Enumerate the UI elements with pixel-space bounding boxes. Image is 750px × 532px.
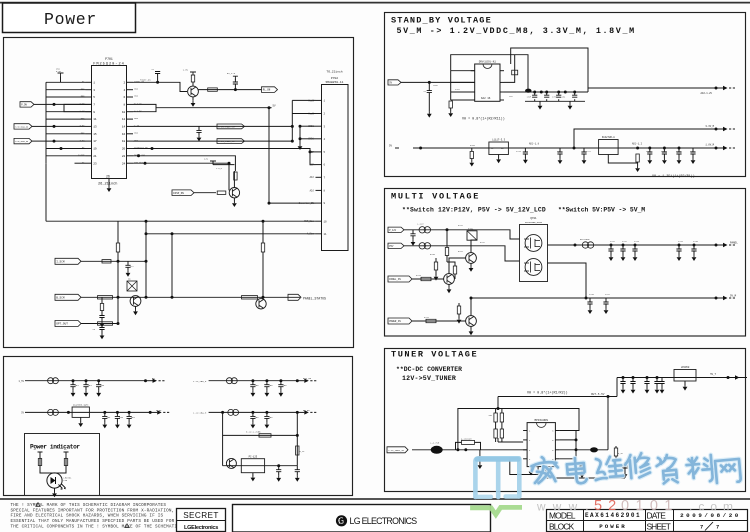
node junction GND1b [299, 137, 302, 140]
capacitor C-1v8 [692, 148, 694, 152]
capacitor C-out [546, 92, 548, 95]
svg-text:PC-123: PC-123 [249, 455, 258, 458]
svg-text:FM25Q20-24: FM25Q20-24 [93, 63, 125, 67]
ground LED [54, 488, 56, 491]
capacitor C-fb [512, 70, 518, 75]
svg-text:5: 5 [93, 96, 95, 99]
svg-text:3.3V: 3.3V [156, 409, 162, 412]
svg-text:7: 7 [700, 525, 703, 531]
ground Q702 emitter [233, 198, 235, 201]
svg-text:KIA278R-A: KIA278R-A [602, 136, 615, 139]
svg-text:104: 104 [269, 416, 274, 419]
op-amp U705 reg 78M05 [674, 370, 696, 382]
capacitor C-bl3 [128, 412, 130, 416]
svg-text:14: 14 [122, 126, 126, 129]
port I_SCM [55, 258, 81, 264]
node junction bl3b [128, 411, 131, 414]
svg-text:21: 21 [93, 155, 97, 158]
svg-text:R705: R705 [470, 144, 476, 147]
port RL_ON [262, 87, 278, 93]
svg-text:RL_ON: RL_ON [263, 89, 271, 92]
svg-text:20: 20 [122, 148, 126, 151]
Power Indicator box [25, 434, 100, 496]
opto U-pc123 [241, 459, 264, 473]
IC P701 pin 15 stub [86, 133, 93, 135]
svg-text:ADJ-1.8: ADJ-1.8 [529, 142, 540, 145]
capacitor C-t3 [581, 461, 583, 463]
capacitor C-low1 [524, 148, 526, 152]
svg-text:I_SCM: I_SCM [56, 260, 65, 263]
svg-text:R_1K: R_1K [618, 452, 624, 455]
wire bus to pin [46, 133, 86, 135]
svg-text:5V_T: 5V_T [710, 373, 716, 376]
LED LED701 [47, 473, 62, 488]
svg-text:R737: R737 [458, 250, 464, 253]
capacitor C-bl1 [72, 381, 74, 385]
svg-text:POWER_IN: POWER_IN [389, 320, 401, 323]
resistor R-led1 [38, 459, 41, 466]
wire bl row1 left [25, 380, 146, 382]
wire 5V feed row [156, 107, 269, 109]
resistor R-u701 [450, 99, 452, 101]
capacitor chain bscm [101, 297, 103, 303]
svg-text:R_1K: R_1K [300, 450, 306, 453]
watermark hanzi zi 资 [656, 454, 678, 484]
op-amp U701 LDO [475, 64, 500, 101]
svg-text:Q701: Q701 [530, 217, 537, 220]
svg-text:1.2V_SBA_M: 1.2V_SBA_M [193, 380, 207, 383]
IC U704 pin R [555, 449, 559, 451]
node junction bl1 [85, 379, 88, 382]
IC U704 pin L [523, 430, 527, 432]
node j sub1 [277, 464, 280, 467]
svg-text:104: 104 [75, 384, 80, 387]
IC U701 pin stub L [471, 91, 475, 93]
svg-text:104: 104 [106, 416, 111, 419]
svg-text:5V_M -> 1.2V_VDDC_M8, 3.3V_M,: 5V_M -> 1.2V_VDDC_M8, 3.3V_M, 1.8V_M [397, 26, 636, 36]
resistor R-sub1 [259, 434, 271, 437]
resistor R-pwr2 [457, 306, 460, 314]
svg-text:IN: IN [491, 148, 493, 150]
svg-text:L1117-3.3: L1117-3.3 [492, 139, 505, 142]
connector P702 pin 3 [316, 125, 322, 127]
svg-text:L_12V: L_12V [417, 223, 424, 226]
IC P701 pin 10 stub [127, 111, 134, 113]
wire bl row2 left [25, 411, 150, 413]
IC P701 pin 24 stub [127, 162, 134, 164]
wire tin link [456, 442, 481, 449]
port PANEL out [716, 244, 723, 246]
node junction 5.0Vm [60, 147, 63, 150]
wire bus to pin [46, 81, 86, 83]
transistor pack Q701 outline [520, 225, 548, 282]
wire SMALL_ON row B [133, 140, 292, 142]
IC P701 pin 17 stub [86, 140, 93, 142]
wire bus to pin [46, 155, 86, 157]
svg-text:F701: F701 [468, 227, 474, 230]
capacitor C-12vin [412, 230, 414, 234]
svg-text:w w w: w w w [536, 500, 579, 514]
capacitor C-tun [656, 378, 658, 382]
wire gate drive [447, 262, 455, 266]
svg-text:ADJ: ADJ [310, 176, 315, 179]
svg-text:12V: 12V [204, 157, 209, 160]
STAND_BY VOLTAGE box [385, 13, 746, 177]
connector P702 pin 4 [316, 138, 322, 140]
wire bus to pin [46, 118, 86, 120]
wire sub right v [296, 412, 298, 465]
svg-text:KA2 1S: KA2 1S [481, 97, 491, 100]
wire diode up [607, 397, 609, 450]
resistor R-t5 [614, 448, 617, 456]
wire pin2 Power_ON [133, 82, 187, 91]
port P_12V input [388, 227, 404, 232]
node junction out-row [545, 91, 548, 94]
svg-text:16: 16 [122, 133, 126, 136]
IC P701 pin 11 stub [86, 118, 93, 120]
ground GND1 [299, 144, 301, 146]
wire tuner rail drop [498, 378, 617, 397]
wire pin22 row [133, 156, 235, 171]
wire outer loop [511, 48, 588, 88]
capacitor C-scp [198, 126, 200, 130]
warning triangle glyph b [125, 524, 129, 528]
wire x118 to opt [117, 261, 119, 323]
IC U704 pin L [523, 439, 527, 441]
wire 5V rail lower [413, 147, 725, 149]
inductor bead bl3 [48, 409, 54, 415]
node junction cpan [622, 244, 625, 247]
watermark hanzi wang 网 [715, 459, 741, 484]
capacitor C-sub2 [296, 466, 298, 470]
resistor R-tin [462, 440, 475, 444]
op-amp U703 reg [599, 140, 619, 155]
node junction 5vm [585, 297, 588, 300]
resistor R-sub2 [296, 446, 299, 455]
svg-text:5V_M: 5V_M [730, 294, 737, 297]
svg-text:ADJ-1.2: ADJ-1.2 [632, 142, 643, 145]
node junction out-row [557, 91, 560, 94]
svg-text:Power indicator: Power indicator [30, 443, 80, 450]
watermark hanzi dian 电 [566, 457, 587, 484]
connector P702 pin 1 [316, 99, 322, 101]
node junction bl2 [279, 379, 282, 382]
svg-text:DISP_ON: DISP_ON [173, 192, 184, 195]
svg-text:POWER: POWER [599, 523, 626, 530]
svg-text:LP2950: LP2950 [681, 366, 690, 369]
svg-text:23: 23 [93, 162, 97, 165]
port PANEL_IN [388, 276, 412, 282]
IC P701 pin 19 stub [86, 148, 93, 150]
svg-text:C713: C713 [646, 150, 652, 153]
wire drop x263 with resistor [262, 221, 264, 243]
svg-text:26: 26 [106, 174, 110, 178]
node junction mos-out [574, 244, 577, 247]
node junction cpan [610, 244, 613, 247]
svg-text:7: 7 [716, 525, 719, 531]
capacitor C-panel2 [693, 245, 695, 249]
svg-text:P_12V: P_12V [389, 229, 397, 232]
wire bus to pin [46, 148, 86, 150]
node junction loop [456, 448, 459, 451]
wire rail into loop [497, 397, 499, 409]
capacitor C-t4 [624, 462, 626, 466]
svg-text:12V->5V_TUNER: 12V->5V_TUNER [402, 375, 456, 382]
capacitor C-t6 [661, 378, 663, 382]
inductor bead out [582, 242, 588, 248]
resistor R-12v drop [446, 230, 448, 247]
connector P702 pin 6 [316, 164, 322, 166]
capacitor C-bl3 [104, 412, 106, 416]
wire Q702m collector [449, 258, 466, 274]
svg-text:1.8V: 1.8V [183, 68, 189, 71]
resistor R-bscm [98, 296, 113, 299]
port out bl1 [146, 380, 153, 382]
svg-text:C735: C735 [693, 240, 699, 243]
MULTI VOLTAGE box [385, 189, 746, 337]
port POWER_IN [388, 318, 412, 324]
resistor R-iscm [102, 260, 111, 263]
connector P702 pin 2 [316, 113, 322, 115]
connector P702 pin 10 [316, 220, 322, 222]
port 5V_TUNER out [728, 377, 735, 379]
svg-text:1.2V_SBA1_IN: 1.2V_SBA1_IN [388, 449, 404, 452]
IC P701 pin 21 stub [86, 155, 93, 157]
wire led left leg [38, 452, 50, 473]
svg-text:17: 17 [93, 140, 97, 143]
node junction u704r [575, 438, 578, 441]
svg-text:1: 1 [93, 81, 95, 84]
inductor bead bl2 [226, 378, 232, 384]
svg-text:19: 19 [93, 148, 97, 151]
svg-text:2: 2 [124, 81, 126, 84]
IC U704 pin R [555, 458, 559, 460]
wire drop x172 [171, 234, 173, 297]
IC P701 pin 18 stub [127, 140, 134, 142]
svg-text:18: 18 [122, 140, 126, 143]
capacitor C-bl1 [98, 381, 100, 385]
svg-text:C712: C712 [586, 150, 592, 153]
svg-text:P5V: P5V [389, 245, 394, 248]
node junction 3v3 [573, 147, 576, 150]
capacitor C-bl4 [252, 412, 254, 416]
wire Q702 collector [233, 171, 235, 188]
svg-text:A2V_SB: A2V_SB [303, 377, 312, 380]
svg-text:LG ELECTRONICS: LG ELECTRONICS [350, 516, 418, 526]
resistor R-led2 [64, 459, 67, 466]
svg-text:P_ON: P_ON [21, 104, 27, 107]
svg-text:SHEET: SHEET [647, 522, 671, 532]
svg-text:11: 11 [93, 118, 97, 121]
svg-text:DRV(LDO)-K1: DRV(LDO)-K1 [479, 60, 497, 64]
wire collector to VCC [213, 164, 234, 166]
svg-text:MULTI VOLTAGE: MULTI VOLTAGE [391, 191, 480, 201]
node junction sb-in [428, 81, 431, 84]
wire SCP pin5 [310, 151, 316, 153]
svg-text:R734: R734 [424, 316, 430, 319]
svg-text:**Switch 12V:P12V, P5V -> 5V_1: **Switch 12V:P12V, P5V -> 5V_12V_LCD [402, 206, 546, 213]
wire U703 adj chain [608, 155, 637, 164]
IC U701 pin stub R [500, 99, 504, 101]
svg-text:3.3V_M: 3.3V_M [705, 125, 714, 128]
inductor L-12v bead [419, 227, 425, 233]
svg-text:1_5V: 1_5V [18, 380, 24, 383]
svg-text:C734: C734 [678, 240, 684, 243]
capacitor C-low3 [583, 148, 585, 152]
wire sub rail1 [223, 434, 298, 436]
svg-text:C737: C737 [605, 293, 611, 296]
wire VccS pins to bus [292, 99, 315, 101]
wire led anode [49, 472, 60, 474]
IC P701 pin 3 stub [86, 89, 93, 91]
fuse F701 box [467, 231, 477, 240]
resistor R-adj [636, 154, 639, 162]
svg-text:SECRET: SECRET [183, 511, 219, 520]
node junction bl1 [97, 379, 100, 382]
TUNER VOLTAGE box [385, 349, 746, 492]
capacitor C-iscm [127, 261, 129, 265]
svg-text:9: 9 [93, 111, 95, 114]
node junction out-row [540, 91, 543, 94]
node junction bl3b [116, 411, 119, 414]
op-amp U702 reg [489, 142, 509, 155]
resistor R-opt [98, 322, 113, 325]
svg-text:PANEL: PANEL [730, 241, 738, 244]
svg-text:0101: 0101 [621, 498, 679, 514]
IC U704 pin R [555, 430, 559, 432]
capacitor C-tin [479, 450, 481, 457]
node junction bl2 [265, 379, 268, 382]
svg-text:SMAW250-11: SMAW250-11 [325, 81, 343, 84]
capacitor C-tun [646, 378, 648, 382]
transistor Q702m [444, 274, 455, 285]
svg-text:BK2125HS: BK2125HS [580, 238, 590, 241]
wire Q703m collector up [471, 240, 477, 253]
svg-text:P702: P702 [331, 77, 338, 80]
svg-text:A_1N4148: A_1N4148 [461, 438, 472, 441]
ground Q702m [448, 284, 450, 287]
left main schematic border [4, 38, 354, 348]
IC P701 pin 8 stub [127, 103, 134, 105]
IC P701 pin 14 stub [127, 125, 134, 127]
capacitor C-1v8 [663, 148, 665, 152]
ground U702 [498, 155, 500, 158]
wire GND1 pins [300, 125, 316, 127]
svg-text:3.3V_SBA1_ON: 3.3V_SBA1_ON [15, 140, 28, 143]
watermark hanzi xiu 修 [624, 453, 650, 479]
capacitor C-bl4 [266, 412, 268, 416]
resistor R-pin [421, 277, 431, 280]
svg-text:PANEL_IN: PANEL_IN [389, 278, 401, 281]
IC P701 pin 12 stub [127, 118, 134, 120]
resistor R-ps [242, 296, 258, 299]
svg-text:R736: R736 [430, 253, 436, 256]
wire bus to pin [46, 103, 86, 105]
svg-text:C710: C710 [516, 150, 522, 153]
title box Power [3, 3, 136, 33]
port P_ON [20, 102, 34, 107]
svg-text:B_SCM: B_SCM [56, 296, 65, 299]
svg-text:13: 13 [93, 126, 97, 129]
IC P701 pin 2 stub [127, 81, 134, 83]
wire Inverter row pin20 [133, 149, 316, 165]
IC P701 pin 4 stub [127, 89, 134, 91]
resistor R-gate [453, 266, 456, 274]
svg-text:5.2V_1.2VBB: 5.2V_1.2VBB [246, 431, 261, 434]
node junction bl4 [221, 411, 224, 414]
svg-text:LGElectronics: LGElectronics [184, 525, 218, 531]
svg-text:.com: .com [689, 500, 739, 514]
svg-text:24: 24 [122, 162, 126, 165]
wire out bottom rail [525, 100, 585, 102]
ground Q703m [470, 263, 472, 266]
svg-text:104: 104 [255, 416, 260, 419]
wire bottom loop U704 [510, 458, 538, 475]
port out bl2 [297, 380, 304, 382]
IC U704 pin R [555, 439, 559, 441]
IC U701 pin stub L [471, 99, 475, 101]
op-amp U0 IC P701 MICOM [92, 66, 127, 179]
svg-text:103: 103 [283, 384, 288, 387]
IC P701 pin 6 stub [127, 96, 134, 98]
port 3.3V_SBA2_ON [14, 138, 32, 143]
page top rule [0, 2, 750, 4]
wire U704 right bus [559, 431, 576, 463]
svg-text:12: 12 [122, 118, 126, 121]
wire tuner top loop [458, 409, 579, 450]
svg-text:15: 15 [93, 133, 97, 136]
bottom separator rule [0, 498, 750, 500]
svg-text:C715: C715 [676, 150, 682, 153]
port DISP_ON [172, 190, 194, 196]
svg-text:3.3V_SBA1_ON: 3.3V_SBA1_ON [15, 126, 28, 129]
wire loop pins 7-9 left [64, 104, 92, 111]
net label 4.10V_SMALL_1SF A [217, 124, 245, 129]
svg-text:TUNER VOLTAGE: TUNER VOLTAGE [391, 349, 478, 359]
port 3.3V_SBA1_ON [14, 124, 32, 129]
wire pin24 row [133, 163, 229, 190]
wire bus to pin [46, 125, 86, 127]
svg-text:1.2V_SBA_M: 1.2V_SBA_M [193, 412, 207, 415]
watermark logo swoosh green [473, 507, 520, 514]
wire bus to pin [46, 89, 86, 91]
wire tuner input row [412, 449, 527, 451]
watermark hanzi jia 家 [531, 456, 559, 484]
wire pin2 up [504, 55, 515, 83]
ground Q704m [470, 326, 472, 329]
capacitor C-panel [634, 245, 636, 249]
node junction rail3 [171, 232, 174, 235]
wire bl row1 right [209, 380, 298, 382]
ground U705 [684, 381, 686, 385]
ground t-b [530, 467, 532, 470]
transistor Q-sub [226, 458, 236, 468]
node junction ctun [656, 376, 659, 379]
ground out-rail b [569, 101, 571, 104]
wire SMALL_ON row A [133, 125, 292, 127]
svg-text:104: 104 [131, 416, 136, 419]
capacitor C-bl1 [85, 381, 87, 385]
transistor Q701 [188, 86, 199, 97]
port 5V_M input [388, 80, 401, 85]
svg-text:7: 7 [93, 104, 95, 107]
node junction bl1 [72, 379, 75, 382]
svg-text:104: 104 [88, 384, 93, 387]
svg-text:104: 104 [119, 416, 124, 419]
connector P702 pin 11 [316, 233, 322, 235]
capacitor C-panel [622, 245, 624, 249]
transistor Q703m [466, 253, 477, 264]
